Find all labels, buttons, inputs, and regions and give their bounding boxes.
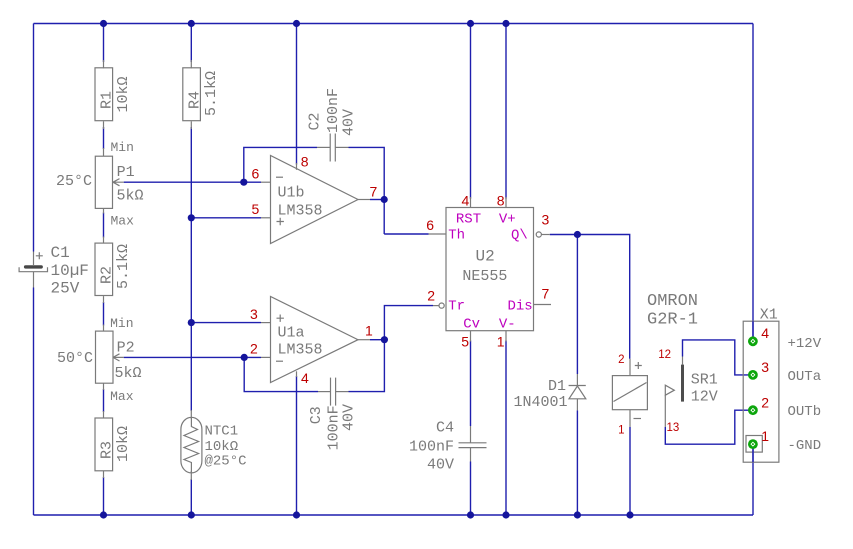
svg-text:3: 3 — [542, 212, 550, 228]
svg-text:12V: 12V — [691, 389, 718, 406]
thermistor NTC1 — [181, 410, 247, 480]
X1 pin 4 pad — [748, 336, 758, 346]
svg-text:Tr: Tr — [448, 299, 465, 315]
svg-text:12: 12 — [658, 349, 671, 361]
wire NE555 V+ drop from +12V — [505, 24, 507, 199]
svg-text:6: 6 — [252, 166, 260, 182]
svg-text:7: 7 — [542, 285, 550, 301]
wire U1b output to NE555 Th — [384, 233, 428, 235]
svg-text:OUTb: OUTb — [788, 404, 822, 420]
X1 pin 2 pad — [748, 405, 758, 415]
wire relay contact 13 to X1 pin 2 — [665, 410, 753, 444]
potentiometer P1 5k — [56, 140, 144, 229]
svg-text:100nF: 100nF — [409, 438, 454, 455]
svg-text:1: 1 — [618, 424, 624, 436]
svg-text:U1b: U1b — [278, 185, 305, 202]
wire U1a output — [370, 339, 384, 341]
wire R3 to GND rail — [103, 477, 105, 515]
node GND rail / U1a pin 4 — [293, 511, 300, 518]
svg-text:NTC1: NTC1 — [205, 424, 239, 440]
node top rail / U1b pin 8 — [293, 20, 300, 27]
wire P1 to R2 — [103, 213, 105, 238]
svg-text:8: 8 — [301, 153, 309, 169]
svg-text:Cv: Cv — [463, 316, 480, 332]
node Q output / D1 / relay — [574, 231, 581, 238]
wire NE555 Cv to C4 — [470, 341, 472, 427]
wire NE555 RST drop from +12V — [470, 24, 472, 199]
wire U1b pin 6 stub — [244, 181, 261, 183]
node R4-NTC / U1b pin 5 — [188, 214, 195, 221]
node GND rail / relay coil — [626, 511, 633, 518]
relay coil SR1 — [612, 354, 647, 436]
wire node to U1a pin 3 — [191, 322, 261, 324]
wire top +12V rail — [34, 23, 754, 25]
svg-text:50°C: 50°C — [57, 350, 93, 367]
svg-text:LM358: LM358 — [278, 203, 323, 220]
svg-text:R1: R1 — [99, 91, 116, 109]
resistor R3 10k — [95, 411, 132, 478]
svg-text:1: 1 — [365, 323, 373, 339]
svg-text:6: 6 — [426, 217, 434, 233]
wire relay contact 12 to X1 pin 3 — [683, 340, 753, 375]
svg-text:2: 2 — [250, 341, 258, 357]
svg-text:5.1kΩ: 5.1kΩ — [115, 244, 132, 289]
svg-text:C1: C1 — [51, 244, 70, 262]
resistor R2 5.1k — [95, 237, 132, 304]
wire R4 column top — [190, 24, 192, 63]
wire NE555 Q out to relay coil — [550, 235, 630, 359]
svg-text:100nF: 100nF — [325, 88, 342, 133]
svg-text:+12V: +12V — [788, 336, 822, 352]
svg-text:C4: C4 — [436, 420, 454, 437]
SR1 coil plus mark — [635, 362, 642, 369]
svg-text:R4: R4 — [187, 91, 204, 109]
svg-text:5kΩ: 5kΩ — [117, 188, 144, 205]
node GND rail / R3 — [100, 511, 107, 518]
timer U2 NE555 — [426, 193, 551, 350]
SR1 coil minus mark — [634, 418, 642, 420]
wire P2 wiper to U1a pin 2 — [124, 356, 245, 358]
node U1b pin 6 / P1 wiper / C2 — [240, 179, 247, 186]
svg-text:Dis: Dis — [508, 299, 533, 315]
svg-text:P1: P1 — [117, 164, 135, 181]
svg-text:Max: Max — [110, 389, 134, 404]
wire R1 column top — [103, 24, 105, 63]
resistor R1 10k — [95, 60, 132, 129]
svg-text:5kΩ: 5kΩ — [115, 365, 142, 382]
C1 plus mark — [36, 252, 43, 259]
svg-text:U2: U2 — [476, 248, 495, 266]
svg-text:R2: R2 — [99, 266, 116, 284]
connector X1 — [743, 307, 822, 463]
wire U1a pin 2 stub — [244, 356, 261, 358]
svg-text:LM358: LM358 — [278, 342, 323, 359]
wire U1b pin 8 drop from +12V — [296, 24, 298, 165]
resistor R4 5.1k — [183, 60, 220, 129]
wire R2 to P2 — [103, 302, 105, 326]
wire NTC1 to GND rail — [190, 479, 192, 515]
node U1b output / C2 — [381, 196, 388, 203]
node top rail / NE555 V+ — [502, 20, 509, 27]
svg-text:2: 2 — [761, 394, 769, 410]
wire bottom GND rail — [34, 514, 754, 516]
node GND rail / C4 — [467, 511, 474, 518]
svg-text:5: 5 — [252, 201, 260, 217]
svg-text:SR1: SR1 — [691, 372, 718, 389]
svg-text:Th: Th — [448, 228, 465, 244]
svg-text:V+: V+ — [499, 211, 516, 227]
C1 negative plate — [19, 267, 47, 272]
svg-text:Min: Min — [110, 316, 133, 331]
node top rail / R1 — [100, 20, 107, 27]
X1 pin 3 pad — [748, 370, 758, 380]
op-amp U1b LM358 — [252, 153, 378, 243]
svg-text:4: 4 — [301, 370, 309, 386]
svg-text:5: 5 — [461, 333, 469, 349]
wire NE555 V- to GND rail — [505, 341, 507, 516]
capacitor C3 100nF — [308, 378, 358, 451]
wire D1 branch down — [576, 235, 578, 375]
svg-text:8: 8 — [497, 193, 505, 209]
wire C2 right to output node — [349, 147, 385, 234]
svg-text:OMRON: OMRON — [647, 292, 698, 311]
svg-text:2: 2 — [427, 288, 435, 304]
node U1a output / C3 / Tr — [381, 336, 388, 343]
svg-text:25V: 25V — [51, 280, 80, 298]
wire U1a pin 4 to GND rail — [296, 376, 298, 515]
svg-text:X1: X1 — [760, 307, 778, 324]
potentiometer P2 5k — [57, 316, 142, 404]
wire X1 pin 1 drop to GND rail — [752, 444, 754, 515]
svg-text:40V: 40V — [341, 109, 358, 136]
X1 pin 1 pad — [748, 439, 758, 449]
op-amp U1a LM358 — [250, 297, 373, 387]
svg-text:10µF: 10µF — [51, 262, 89, 280]
wire P2 to R3 — [103, 389, 105, 412]
node GND rail / NTC1 — [188, 511, 195, 518]
svg-text:40V: 40V — [427, 456, 454, 473]
svg-text:13: 13 — [667, 422, 680, 434]
svg-text:C3: C3 — [308, 406, 325, 424]
svg-text:4: 4 — [462, 193, 470, 209]
svg-text:7: 7 — [370, 184, 378, 200]
svg-text:5.1kΩ: 5.1kΩ — [203, 71, 220, 116]
svg-text:3: 3 — [250, 306, 258, 322]
wire C4 to GND rail — [470, 462, 472, 516]
svg-text:25°C: 25°C — [56, 173, 92, 190]
wire R1 to P1 — [103, 127, 105, 149]
svg-text:1: 1 — [761, 428, 769, 444]
svg-text:C2: C2 — [307, 112, 324, 130]
wire left rail lower (C1 to GND) — [33, 288, 35, 516]
wire right drop to X1 pin 4 — [752, 24, 754, 342]
diode D1 1N4001 — [513, 374, 585, 411]
svg-text:-GND: -GND — [788, 438, 822, 454]
node top rail / R4 — [188, 20, 195, 27]
svg-text:U1a: U1a — [278, 325, 305, 342]
svg-text:10kΩ: 10kΩ — [115, 426, 132, 462]
svg-text:V-: V- — [499, 316, 516, 332]
relay contact SR1 (switch) — [647, 292, 718, 434]
wire node to U1b pin 5 — [191, 217, 261, 219]
node R4-NTC / U1a pin 3 — [188, 319, 195, 326]
svg-text:OUTa: OUTa — [788, 369, 822, 385]
node GND rail / NE555 V- — [502, 511, 509, 518]
wire P1 wiper to U1b pin 6 — [124, 181, 244, 183]
svg-text:R3: R3 — [99, 441, 116, 459]
svg-text:40V: 40V — [341, 404, 358, 431]
svg-text:4: 4 — [761, 325, 769, 341]
svg-text:Q\: Q\ — [511, 228, 528, 244]
svg-text:2: 2 — [618, 354, 624, 366]
svg-text:Min: Min — [111, 140, 134, 155]
node U1a pin 2 / P2 wiper / C3 — [241, 354, 248, 361]
capacitor C1 (polarized, in left rail) — [19, 244, 89, 298]
wire D1 to GND rail — [576, 410, 578, 515]
svg-text:@25°C: @25°C — [205, 454, 247, 470]
wire U1a feedback loop via C3 — [244, 357, 318, 391]
C1 positive plate — [24, 265, 43, 268]
P2 wiper arrow — [113, 354, 124, 361]
svg-text:3: 3 — [761, 359, 769, 375]
svg-text:RST: RST — [456, 211, 481, 227]
svg-text:10kΩ: 10kΩ — [115, 76, 132, 112]
svg-text:1N4001: 1N4001 — [513, 394, 567, 411]
svg-text:D1: D1 — [548, 378, 566, 395]
node top rail / NE555 RST — [467, 20, 474, 27]
svg-text:Max: Max — [111, 214, 135, 229]
wire U1b output — [370, 199, 384, 201]
wire left rail upper (V+ to C1) — [33, 24, 35, 252]
node GND rail / D1 — [574, 511, 581, 518]
svg-text:1: 1 — [497, 333, 505, 349]
P1 wiper arrow — [113, 179, 124, 186]
wire U1b feedback loop via C2 — [244, 147, 317, 182]
wire C3 right to output node and up to NE555 Tr — [349, 306, 434, 392]
svg-text:G2R-1: G2R-1 — [647, 310, 698, 329]
wire relay coil to GND rail — [629, 427, 631, 515]
wire R4 to NTC1 node — [190, 127, 192, 411]
capacitor C4 100nF — [409, 420, 487, 474]
svg-text:P2: P2 — [117, 340, 135, 357]
svg-text:NE555: NE555 — [462, 268, 507, 285]
capacitor C2 100nF — [307, 88, 358, 162]
